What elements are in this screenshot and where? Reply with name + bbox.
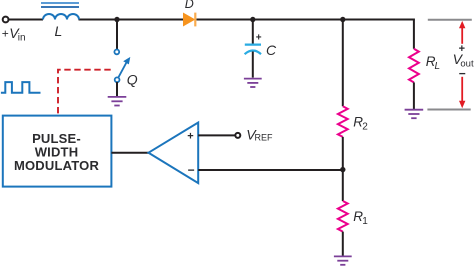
svg-text:2: 2 bbox=[362, 122, 368, 133]
wire comparator plus input to VREF terminal bbox=[198, 134, 235, 136]
svg-text:−: − bbox=[459, 67, 466, 81]
wire R1 to ground bbox=[342, 232, 344, 256]
svg-text:L: L bbox=[435, 61, 441, 72]
wire from bus down to resistor R2 bbox=[342, 20, 344, 107]
wire top bus corner down to load resistor bbox=[413, 20, 416, 49]
transistor switch Q (idealized switch) upper contact bbox=[114, 50, 119, 55]
op-amp comparator U1 (output on left) bbox=[149, 123, 199, 184]
label R2 bbox=[353, 115, 368, 133]
svg-text:in: in bbox=[18, 33, 26, 44]
svg-text:−: − bbox=[188, 163, 195, 177]
Vout arrow up bbox=[459, 21, 465, 44]
resistor R2 bbox=[338, 106, 348, 137]
inductor L coil bbox=[43, 14, 79, 19]
Vout bracket top rail bbox=[428, 19, 472, 21]
svg-text:C: C bbox=[266, 42, 277, 58]
capacitor C plates bbox=[245, 45, 261, 55]
label VREF bbox=[246, 127, 273, 143]
svg-text:L: L bbox=[55, 23, 63, 39]
svg-text:D: D bbox=[185, 0, 194, 11]
ground below capacitor bbox=[244, 79, 262, 87]
wire from bus down to capacitor bbox=[252, 20, 254, 44]
label R1 bbox=[353, 209, 368, 227]
switch Q arm with arrowhead bbox=[119, 58, 130, 77]
resistor R1 bbox=[338, 201, 348, 232]
resistor RL bbox=[409, 49, 419, 83]
VREF terminal circle bbox=[235, 133, 240, 138]
wire from top bus down to switch bbox=[116, 20, 118, 50]
node junction at feedback divider branch bbox=[340, 17, 345, 22]
label +Vin bbox=[2, 25, 26, 44]
wire from capacitor to ground bbox=[252, 52, 254, 78]
svg-text:1: 1 bbox=[362, 216, 368, 227]
svg-text:+: + bbox=[2, 27, 9, 41]
ground below switch Q bbox=[108, 97, 127, 106]
wire RL to ground bbox=[413, 82, 415, 109]
dashed control line from PWM to switch Q bbox=[58, 70, 111, 115]
pulse-width modulator block bbox=[3, 116, 112, 187]
inductor L core lines bbox=[41, 3, 79, 7]
diode D bbox=[184, 13, 196, 27]
node junction at capacitor branch bbox=[250, 17, 255, 22]
square wave clock symbol bbox=[1, 82, 41, 93]
Vout bracket bottom rail bbox=[427, 109, 470, 111]
wire R2 to R1 through feedback node bbox=[342, 137, 344, 201]
wire from switch to ground bbox=[116, 82, 118, 97]
svg-text:+: + bbox=[187, 130, 193, 142]
ground below RL bbox=[405, 110, 424, 119]
svg-text:+: + bbox=[256, 33, 262, 44]
svg-text:MODULATOR: MODULATOR bbox=[14, 158, 99, 173]
wire PWM box to comparator output bbox=[111, 152, 148, 154]
label Vout bbox=[453, 51, 474, 70]
ground below R1 bbox=[334, 256, 352, 264]
svg-text:Q: Q bbox=[127, 72, 138, 88]
wire comparator minus input to feedback node bbox=[198, 169, 343, 171]
label RL bbox=[426, 54, 440, 72]
svg-text:REF: REF bbox=[255, 132, 274, 142]
node feedback junction bbox=[340, 167, 345, 172]
wire top bus from input terminal to diode anode bbox=[8, 19, 415, 21]
switch Q lower contact bbox=[115, 77, 120, 82]
Vout arrow down bbox=[459, 77, 465, 108]
input terminal circle bbox=[3, 17, 9, 23]
node junction at switch branch bbox=[114, 17, 119, 22]
